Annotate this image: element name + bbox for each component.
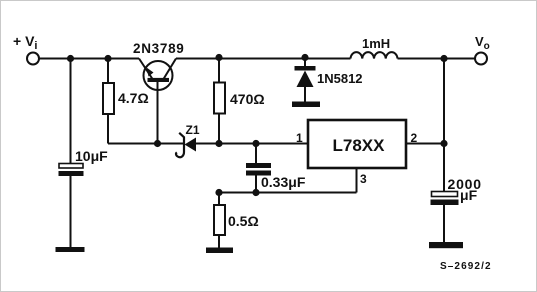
wire 4.7ohm branch lower xyxy=(107,114,109,144)
svg-text:1mH: 1mH xyxy=(362,36,390,51)
svg-text:470Ω: 470Ω xyxy=(230,91,265,107)
svg-text:0.5Ω: 0.5Ω xyxy=(228,213,259,229)
wire output branch lower xyxy=(443,205,445,243)
node junction dot pin3 line / 0.33uF xyxy=(252,189,259,196)
node junction dot Vi rail / 10uF xyxy=(67,55,74,62)
wire pin3 horizontal line xyxy=(219,192,357,194)
wire 10uF branch lower xyxy=(70,176,72,249)
svg-text:4.7Ω: 4.7Ω xyxy=(118,90,149,106)
svg-text:S–2692/2: S–2692/2 xyxy=(440,261,492,272)
node junction dot top rail / output branch xyxy=(440,55,447,62)
node junction dot base rail / 470ohm xyxy=(215,140,222,147)
capacitor C2 2000uF xyxy=(431,192,459,206)
ground under 10uF xyxy=(56,247,85,252)
svg-text:3: 3 xyxy=(360,172,367,186)
wire output branch mid xyxy=(443,144,445,193)
svg-text:10μF: 10μF xyxy=(75,148,108,164)
svg-text:μF: μF xyxy=(460,187,478,203)
wire 10uF branch upper xyxy=(70,59,72,165)
wire top rail left segment xyxy=(39,58,140,60)
ground under 1N5812 xyxy=(292,102,320,108)
wire 0.5ohm bottom lead xyxy=(218,235,220,249)
wire output branch upper xyxy=(443,59,445,144)
node junction dot top rail / 1N5812 xyxy=(301,54,308,61)
terminal Vi xyxy=(27,53,39,65)
ground under 2000uF xyxy=(429,242,463,248)
svg-text:2: 2 xyxy=(411,131,418,145)
svg-text:1: 1 xyxy=(296,131,303,145)
wire 1N5812 bottom lead xyxy=(304,87,306,103)
wire 1N5812 top lead xyxy=(304,59,306,68)
svg-text:L78XX: L78XX xyxy=(333,136,386,155)
wire 0.33uF top lead xyxy=(255,144,257,165)
wire 0.5ohm top lead xyxy=(218,193,220,206)
transistor Q1 2N3789 xyxy=(139,59,176,144)
resistor R1 4.7ohm xyxy=(103,83,114,114)
regulator U1 L78XX xyxy=(308,120,406,168)
wire 4.7ohm branch upper xyxy=(107,59,109,84)
node junction dot pin2 / output branch xyxy=(440,140,447,147)
wire 470ohm branch lower xyxy=(218,114,220,144)
capacitor 0.33uF xyxy=(246,163,271,176)
wire top rail after inductor xyxy=(398,58,476,60)
wire 470ohm branch upper xyxy=(218,59,220,83)
wire 0.33uF bottom lead xyxy=(255,175,257,193)
node junction dot top rail / 470ohm xyxy=(215,54,222,61)
zener diode Z1 xyxy=(176,133,196,157)
node junction dot base rail / 0.33uF xyxy=(252,140,259,147)
resistor R3 0.5ohm xyxy=(214,205,225,235)
wire pin2 horizontal xyxy=(406,143,444,145)
wire top rail right segment xyxy=(176,58,351,60)
svg-text:0.33μF: 0.33μF xyxy=(261,174,306,190)
wire base rail left of Z1 xyxy=(108,143,184,145)
capacitor C1 10uF xyxy=(59,164,84,177)
node junction dot Vi rail / 4.7ohm xyxy=(104,55,111,62)
node junction dot pin3 line / 0.5ohm xyxy=(215,189,222,196)
ground under 0.5ohm xyxy=(206,248,233,254)
inductor L1 1mH xyxy=(351,52,398,58)
svg-text:2N3789: 2N3789 xyxy=(133,41,185,56)
node junction dot base rail / transistor base xyxy=(154,140,161,147)
resistor R2 470ohm xyxy=(214,83,225,114)
wire base rail right of Z1 xyxy=(196,143,308,145)
wire pin3 vertical lead xyxy=(356,168,358,193)
diode 1N5812 xyxy=(295,66,316,87)
svg-text:Z1: Z1 xyxy=(186,123,200,137)
svg-text:1N5812: 1N5812 xyxy=(317,71,363,86)
terminal Vo xyxy=(475,53,487,65)
